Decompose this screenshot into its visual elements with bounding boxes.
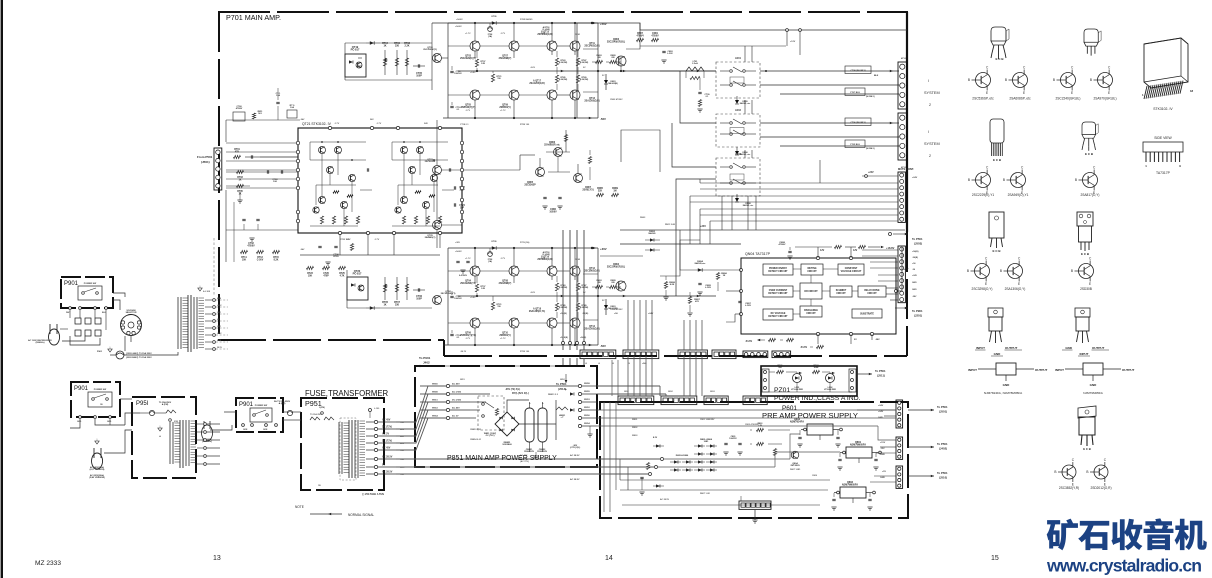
svg-text:2SA985(Y): 2SA985(Y) bbox=[425, 236, 436, 239]
transistor QN03 ch1 bbox=[616, 56, 626, 66]
svg-text:C-50V: C-50V bbox=[257, 259, 264, 261]
svg-text:+54.8V: +54.8V bbox=[456, 18, 463, 21]
PZ01 pins left bbox=[764, 371, 767, 374]
relay coil drops bbox=[721, 196, 723, 230]
svg-text:2SA608SP, etc: 2SA608SP, etc bbox=[1009, 97, 1031, 101]
capacitor C716 ch2 bbox=[450, 295, 453, 297]
P951 box bbox=[301, 398, 384, 490]
inductor left bottom bbox=[166, 410, 176, 413]
svg-text:J402: J402 bbox=[423, 361, 430, 365]
svg-text:E: E bbox=[1018, 282, 1020, 286]
svg-text:AC 2V: AC 2V bbox=[452, 415, 459, 418]
svg-text:160K: 160K bbox=[814, 367, 819, 369]
+56V rail top bbox=[432, 22, 598, 24]
svg-text:(J501): (J501) bbox=[201, 160, 210, 164]
wire relay to system 1c bbox=[780, 93, 899, 95]
svg-text:OUTPUT: OUTPUT bbox=[1092, 346, 1105, 350]
P901 pins left top bbox=[69, 307, 72, 310]
svg-text:STK3102- IV: STK3102- IV bbox=[1153, 107, 1173, 111]
svg-text:2SA1265(O,Y1): 2SA1265(O,Y1) bbox=[529, 310, 546, 313]
svg-text:W803: W803 bbox=[632, 435, 638, 437]
svg-text:24V: 24V bbox=[370, 118, 374, 121]
transistor package TO-92 (2SC536/2SA608) bbox=[991, 27, 1009, 59]
pinout 2SC3298 bbox=[975, 264, 990, 279]
svg-text:GRN: GRN bbox=[263, 429, 268, 431]
svg-text:+18.8V: +18.8V bbox=[886, 246, 895, 250]
signal line ch1 bbox=[458, 70, 716, 72]
svg-text:POWER ON/OFF: POWER ON/OFF bbox=[769, 268, 788, 270]
svg-text:A L100: A L100 bbox=[203, 290, 211, 293]
svg-text:+12V: +12V bbox=[790, 41, 796, 43]
out wiring bbox=[857, 409, 896, 411]
transistor QT04 ch2 bbox=[470, 266, 480, 276]
mute bus drops bbox=[699, 179, 701, 183]
preamp caps mid bbox=[724, 442, 727, 444]
svg-text:GND: GND bbox=[1065, 346, 1073, 350]
svg-text:2SC3982(O,R): 2SC3982(O,R) bbox=[584, 270, 599, 272]
svg-text:2SA817(Y): 2SA817(Y) bbox=[582, 188, 594, 191]
svg-text:470P: 470P bbox=[323, 274, 329, 277]
svg-text:-0.6V: -0.6V bbox=[530, 67, 536, 69]
svg-text:1M: 1M bbox=[613, 190, 616, 192]
transformer primary winding bbox=[338, 422, 340, 474]
STK3102 pins bbox=[296, 141, 299, 144]
transistor QT07 ch1 bbox=[509, 41, 519, 51]
svg-text:DISCHARGE: DISCHARGE bbox=[804, 309, 818, 312]
svg-text:MA165(B): MA165(B) bbox=[608, 82, 618, 85]
connector row CB03 bbox=[680, 352, 684, 356]
svg-text:22K: 22K bbox=[598, 190, 603, 192]
svg-text:330: 330 bbox=[395, 303, 400, 306]
svg-text:W854: W854 bbox=[584, 422, 590, 425]
wire servo to STK bbox=[462, 169, 520, 171]
svg-text:NOTE: NOTE bbox=[295, 505, 304, 509]
svg-text:2SA1265(O,R): 2SA1265(O,R) bbox=[584, 99, 599, 102]
pinout 2SA608SP bbox=[1013, 73, 1028, 88]
svg-text:MA165, etc: MA165, etc bbox=[740, 102, 751, 105]
power switch center bbox=[250, 408, 272, 422]
transistor QT02 driver bbox=[433, 296, 442, 305]
transformer left top core bbox=[187, 295, 189, 352]
svg-text:+24V: +24V bbox=[912, 274, 918, 277]
svg-text:SUBSTRATE: SUBSTRATE bbox=[860, 313, 874, 316]
connector J708 bbox=[898, 246, 905, 303]
svg-text:+15V: +15V bbox=[880, 442, 886, 444]
svg-text:L-50V: L-50V bbox=[667, 53, 673, 55]
svg-text:1K: 1K bbox=[239, 179, 242, 181]
svg-text:P901: P901 bbox=[74, 386, 89, 392]
svg-text:DC (72V): DC (72V) bbox=[382, 440, 392, 443]
svg-text:SYSTEM: SYSTEM bbox=[924, 142, 940, 146]
svg-text:+54.8V: +54.8V bbox=[455, 25, 462, 28]
svg-text:2SC2229(K),Y1: 2SC2229(K),Y1 bbox=[972, 193, 995, 197]
transistor QT10 ch2 bbox=[509, 318, 519, 328]
transistor QT09 ch1 bbox=[509, 90, 519, 100]
P901 pins left bottom bbox=[79, 416, 82, 419]
svg-text:2: 2 bbox=[929, 154, 931, 158]
svg-text:2SD30B: 2SD30B bbox=[1080, 287, 1092, 291]
fuse F728 ch1 bbox=[488, 27, 493, 32]
svg-text:INPUT: INPUT bbox=[976, 346, 985, 350]
svg-text:18: 18 bbox=[1190, 89, 1194, 93]
svg-text:W850: W850 bbox=[432, 384, 438, 386]
P901 box left bottom bbox=[71, 382, 120, 417]
wire relay to system 2b bbox=[760, 136, 899, 138]
svg-text:AC 45V: AC 45V bbox=[382, 447, 391, 450]
svg-text:CONSTANT: CONSTANT bbox=[845, 267, 858, 270]
mute wires bbox=[700, 182, 898, 184]
svg-text:E: E bbox=[1108, 91, 1110, 95]
svg-text:8.2K: 8.2K bbox=[670, 284, 675, 286]
TA7317P internal wires bbox=[793, 268, 801, 270]
svg-text:(R,AT VERSION): (R,AT VERSION) bbox=[89, 476, 105, 479]
connector J603 out3 bbox=[896, 466, 903, 488]
svg-text:CN04 47/50V: CN04 47/50V bbox=[610, 308, 623, 311]
svg-text:12V: 12V bbox=[853, 249, 858, 252]
svg-text:GND: GND bbox=[994, 352, 1002, 356]
resistor RT49 ch2 bbox=[576, 303, 579, 311]
connector row CB04 bbox=[714, 352, 718, 356]
svg-text:(L56,5W): (L56,5W) bbox=[559, 79, 568, 81]
P601 box bbox=[600, 402, 908, 518]
svg-text:GRD: GRD bbox=[107, 421, 112, 423]
TA7317P constant voltage bbox=[838, 264, 864, 275]
svg-text:SCHMIDT: SCHMIDT bbox=[836, 290, 847, 292]
svg-text:P901: P901 bbox=[239, 402, 254, 408]
svg-text:W858: W858 bbox=[584, 383, 590, 385]
connector row CB01 bbox=[582, 352, 586, 356]
svg-text:GND: GND bbox=[880, 477, 885, 479]
svg-text:-54.6V: -54.6V bbox=[800, 346, 807, 349]
svg-text:MZ 2333: MZ 2333 bbox=[35, 560, 61, 567]
P851 box bbox=[415, 366, 597, 467]
svg-text:P851 MAIN AMP POWER SUPPLY: P851 MAIN AMP POWER SUPPLY bbox=[447, 455, 557, 462]
servo resistors bbox=[597, 193, 604, 196]
svg-text:+24V: +24V bbox=[878, 404, 884, 407]
svg-text:2SA1265(O,R): 2SA1265(O,R) bbox=[584, 327, 599, 330]
svg-text:W855: W855 bbox=[584, 391, 590, 393]
relay RY851 box bbox=[478, 396, 504, 430]
svg-text:(W.ONLY): (W.ONLY) bbox=[866, 96, 875, 98]
transformer left bottom primary bbox=[169, 422, 171, 464]
sense cap CN05 bbox=[698, 282, 701, 284]
sense wires bbox=[710, 269, 741, 271]
svg-text:-15V: -15V bbox=[880, 448, 885, 450]
svg-text:To P901: To P901 bbox=[912, 309, 923, 313]
channel wires ch2 bbox=[474, 248, 476, 266]
bottom wires preamp bbox=[620, 479, 830, 481]
svg-text:B: B bbox=[968, 178, 970, 182]
STK bottom stubs bbox=[339, 235, 341, 255]
svg-text:To P501: To P501 bbox=[875, 369, 886, 373]
svg-text:B: B bbox=[1005, 78, 1007, 82]
svg-text:+56(B): +56(B) bbox=[912, 251, 919, 253]
wire relay feed lower channel bbox=[676, 179, 716, 296]
svg-text:OC (72V): OC (72V) bbox=[486, 435, 495, 437]
left bottom wires bbox=[104, 430, 132, 453]
power sw left top bbox=[78, 286, 102, 300]
svg-text:BLK: BLK bbox=[874, 75, 879, 77]
diode DN04 bbox=[698, 268, 702, 272]
transistor QT18 ch2 bbox=[547, 318, 557, 328]
svg-text:P95I: P95I bbox=[136, 401, 149, 407]
left riser wires bbox=[225, 190, 227, 262]
frame vertical right1 ch2 bbox=[576, 248, 578, 345]
To P501 J510 label bbox=[931, 475, 934, 478]
primary inductors bbox=[310, 417, 320, 420]
svg-text:-1.7V: -1.7V bbox=[376, 123, 382, 125]
svg-text:4700/4: 4700/4 bbox=[636, 34, 644, 37]
svg-text:R720: R720 bbox=[333, 256, 339, 258]
wire relay to system 2c bbox=[780, 145, 899, 147]
svg-text:+: + bbox=[542, 401, 544, 405]
TA7317P dc voltage detect bbox=[763, 309, 793, 320]
voltage selector bbox=[121, 315, 142, 336]
transistor QT16 ch2 bbox=[547, 266, 557, 276]
lower res RT07b bbox=[395, 284, 398, 292]
AC plug left top bbox=[49, 329, 60, 345]
filter cap CB851 bbox=[525, 408, 534, 442]
regulator package NJM7824FA bbox=[988, 308, 1003, 343]
note arrow legend bbox=[310, 513, 342, 515]
J708 feed wires bbox=[862, 249, 898, 251]
svg-text:+0.6V: +0.6V bbox=[470, 72, 476, 74]
wire relay to system 2a bbox=[760, 122, 899, 124]
capacitor CT18 ch1 bbox=[450, 105, 453, 107]
svg-text:10/50V: 10/50V bbox=[549, 211, 557, 213]
svg-text:GND: GND bbox=[880, 454, 885, 456]
terminal strip left bbox=[75, 318, 81, 324]
speaker line label CT06 bbox=[845, 118, 871, 126]
svg-text:+36V: +36V bbox=[455, 242, 461, 244]
input cap CT01 bbox=[250, 155, 252, 158]
vertical bus left group bbox=[562, 230, 564, 350]
svg-text:AC 28.5V: AC 28.5V bbox=[570, 454, 580, 457]
svg-text:E: E bbox=[1071, 91, 1073, 95]
svg-text:AC 28.5V: AC 28.5V bbox=[382, 471, 393, 474]
svg-text:MA165: MA165 bbox=[648, 232, 656, 235]
wire bias row bbox=[345, 79, 432, 81]
svg-text:(J511): (J511) bbox=[877, 374, 885, 378]
svg-text:+0.6V: +0.6V bbox=[470, 297, 476, 299]
rail positive ch1 bbox=[448, 22, 598, 24]
svg-text:www.crystalradio.cn: www.crystalradio.cn bbox=[1046, 556, 1202, 576]
resistor row below input bbox=[241, 250, 248, 253]
To P501 J511 label bbox=[869, 373, 872, 376]
relay contacts LN01 bbox=[716, 62, 760, 98]
svg-text:B: B bbox=[1003, 178, 1005, 182]
svg-text:24V: 24V bbox=[424, 122, 428, 125]
svg-text:+54.8(B): +54.8(B) bbox=[560, 336, 568, 339]
resistor RN03 ch2 bbox=[596, 285, 603, 288]
speaker line label CT05 bbox=[845, 140, 865, 148]
svg-text:1K: 1K bbox=[723, 275, 726, 277]
svg-text:To P501: To P501 bbox=[912, 237, 923, 241]
P701 main amp box right border bbox=[906, 12, 908, 232]
wire relay feed top bbox=[660, 70, 716, 72]
diode DN01 ch1 bbox=[604, 80, 608, 84]
svg-text:B: B bbox=[968, 78, 970, 82]
svg-text:OVER CURRENT: OVER CURRENT bbox=[769, 290, 788, 292]
svg-text:PC-817: PC-817 bbox=[353, 272, 362, 276]
svg-text:0.7V: 0.7V bbox=[346, 239, 351, 241]
svg-text:BRN: BRN bbox=[217, 298, 222, 300]
svg-text:8.2V: 8.2V bbox=[653, 437, 658, 439]
svg-text:L-50V: L-50V bbox=[705, 287, 711, 289]
svg-text:W854: W854 bbox=[432, 415, 438, 418]
svg-text:(K,IT VERSION): (K,IT VERSION) bbox=[90, 469, 105, 471]
svg-text:+1.7V: +1.7V bbox=[500, 338, 506, 340]
svg-text:DC (72V): DC (72V) bbox=[452, 400, 461, 402]
svg-text:GND: GND bbox=[912, 289, 917, 291]
P951 top vent bbox=[369, 409, 372, 412]
resistor cluster right ch1 bbox=[637, 38, 644, 41]
rail -56V mid bbox=[300, 254, 440, 256]
svg-text:+56(B): +56(B) bbox=[560, 313, 567, 315]
svg-text:RT29 100: RT29 100 bbox=[520, 124, 530, 126]
svg-text:MA165,etc: MA165,etc bbox=[695, 262, 707, 265]
svg-text:-54.6V: -54.6V bbox=[745, 340, 752, 343]
signal line ch2 bbox=[458, 295, 716, 297]
svg-text:AC 28.5V: AC 28.5V bbox=[660, 498, 670, 501]
svg-text:AC 28.5V: AC 28.5V bbox=[570, 478, 580, 481]
svg-text:100P: 100P bbox=[416, 297, 422, 300]
rail positive ch2 bbox=[448, 247, 598, 249]
frame vertical right1 ch1 bbox=[576, 23, 578, 118]
output inductor LT01 bbox=[686, 67, 704, 71]
resistors RN09 RN10 above bbox=[835, 245, 842, 248]
svg-text:2SC536SP, etc: 2SC536SP, etc bbox=[972, 97, 994, 101]
P851 input nodes bbox=[446, 384, 449, 387]
zobel RC bbox=[699, 78, 701, 90]
svg-text:28.5V: 28.5V bbox=[217, 347, 223, 349]
svg-text:2SA817(O,Y): 2SA817(O,Y) bbox=[1081, 193, 1100, 197]
svg-text:2SB546(Y)(Y1): 2SB546(Y)(Y1) bbox=[460, 334, 476, 337]
cap cluster below input bbox=[242, 218, 245, 220]
svg-text:-2.4V: -2.4V bbox=[540, 257, 546, 260]
P901 box center bbox=[236, 398, 283, 432]
svg-text:8.2K: 8.2K bbox=[274, 259, 279, 261]
svg-text:GND: GND bbox=[912, 282, 917, 284]
rail +24V right bbox=[620, 229, 905, 231]
filter cap CB852 bbox=[538, 408, 547, 442]
svg-text:2SA608SP, etc: 2SA608SP, etc bbox=[544, 143, 560, 146]
page left border bbox=[1, 0, 3, 578]
VAS wires bbox=[436, 120, 438, 165]
svg-text:2SA949(O),Y1: 2SA949(O),Y1 bbox=[1008, 193, 1029, 197]
connector row PB04 bbox=[745, 398, 749, 402]
svg-text:(220V/240V) T3.15A 250V: (220V/240V) T3.15A 250V bbox=[126, 356, 152, 359]
transistor QT01 driver bbox=[433, 54, 442, 63]
servo wires bbox=[546, 151, 570, 153]
svg-text:AC 45V: AC 45V bbox=[452, 383, 460, 386]
svg-text:NJM79M05FA: NJM79M05FA bbox=[842, 484, 858, 487]
TA7317P power on/off detect bbox=[763, 264, 793, 275]
channel nodes ch2 bbox=[474, 247, 476, 249]
lower bias pot bbox=[383, 284, 386, 292]
speaker line label CT07 bbox=[845, 88, 865, 96]
svg-text:LN02: LN02 bbox=[735, 109, 742, 112]
vertical bus preamp top bbox=[627, 356, 629, 396]
P901 box left top bbox=[61, 277, 113, 308]
lower res RT09 bbox=[405, 284, 408, 292]
svg-text:(J510): (J510) bbox=[939, 476, 947, 480]
transformer left bottom secondary bbox=[185, 420, 187, 466]
STK3102 bottom pin marks bbox=[338, 231, 341, 234]
P701 main amp box bottom border left bbox=[218, 339, 444, 341]
svg-text:S10VB60: S10VB60 bbox=[502, 444, 512, 446]
diode DT01 bbox=[370, 41, 374, 45]
svg-text:C801 1000/35V: C801 1000/35V bbox=[700, 419, 715, 421]
vertical bus mid group bbox=[627, 300, 629, 350]
cap CN07 bbox=[738, 300, 741, 302]
preamp res cluster bbox=[757, 428, 764, 431]
lower cap CT06 bbox=[417, 288, 419, 291]
svg-text:AC 45V: AC 45V bbox=[382, 419, 391, 422]
To P501 J402b label bbox=[931, 446, 934, 449]
svg-text:-1.7V: -1.7V bbox=[465, 338, 471, 340]
STK3102 top pin marks bbox=[328, 126, 331, 129]
svg-text:(1A): (1A) bbox=[488, 35, 492, 38]
IC QN04 TA7317P box bbox=[741, 258, 896, 334]
P851 extra zener bbox=[570, 392, 574, 395]
P701 main amp box bottom border right bbox=[444, 355, 907, 357]
svg-text:+24V: +24V bbox=[648, 312, 654, 315]
svg-text:(J501): (J501) bbox=[939, 410, 947, 414]
svg-text:POWER SW: POWER SW bbox=[255, 405, 268, 407]
P851 inner wires bbox=[470, 385, 580, 387]
svg-text:-1.7V: -1.7V bbox=[500, 258, 506, 260]
svg-text:CIRCUIT: CIRCUIT bbox=[867, 293, 877, 295]
svg-text:E C B: E C B bbox=[993, 158, 1002, 162]
transistor package TO-92L (2SC2229) bbox=[990, 119, 1004, 156]
mute rail +24V bbox=[862, 175, 898, 177]
resistor RN05 ch1 bbox=[610, 60, 617, 63]
pinout 2SC3852 bbox=[1062, 465, 1076, 479]
sense res RN08 bbox=[664, 282, 667, 289]
caps under channel2 rail bbox=[456, 260, 459, 262]
rail negative ch2 bbox=[443, 344, 598, 346]
svg-text:-1.7V: -1.7V bbox=[374, 239, 380, 241]
svg-text:B: B bbox=[1086, 470, 1088, 474]
resistor RT47 ch1 bbox=[576, 58, 579, 66]
svg-text:14: 14 bbox=[605, 555, 613, 562]
svg-text:2SA1265(O,R): 2SA1265(O,R) bbox=[529, 82, 544, 85]
svg-text:C803 470/25V: C803 470/25V bbox=[745, 423, 759, 426]
svg-text:-1.7V: -1.7V bbox=[334, 123, 340, 125]
svg-text:330: 330 bbox=[395, 44, 400, 47]
TA7317P discharge circuit bbox=[800, 306, 822, 317]
relay drive wire bbox=[896, 248, 902, 291]
transformer left bottom core bbox=[179, 420, 181, 468]
TA7317P substrate bbox=[852, 309, 882, 318]
capacitor C716 ch1 bbox=[450, 70, 453, 72]
svg-text:+1.7V: +1.7V bbox=[500, 110, 506, 112]
svg-text:2SC2229K: 2SC2229K bbox=[425, 161, 436, 163]
LED LT1066 no2 bbox=[826, 374, 835, 383]
relay diode DN05 bbox=[735, 100, 739, 104]
svg-text:+24V: +24V bbox=[878, 410, 884, 413]
transistor QN05 2SC536 bbox=[536, 168, 545, 177]
svg-text:RT30 100: RT30 100 bbox=[520, 351, 530, 353]
vertical bus right group bbox=[683, 320, 685, 350]
P701 main amp box top border bbox=[218, 11, 908, 13]
pinout 2SC2229 bbox=[976, 173, 991, 188]
svg-text:CIRCUIT: CIRCUIT bbox=[807, 271, 817, 273]
svg-text:(J402): (J402) bbox=[939, 447, 947, 451]
svg-text:GRD: GRD bbox=[77, 421, 82, 423]
svg-text:47/50V: 47/50V bbox=[651, 34, 659, 37]
